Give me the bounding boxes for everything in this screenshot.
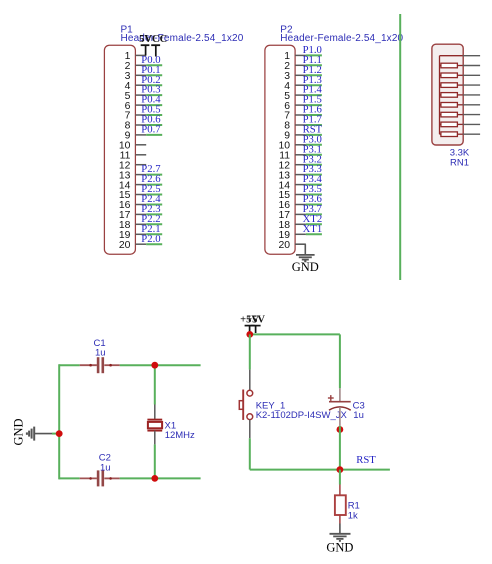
wire and net label P1.7 (P2 pin 8) [303, 114, 323, 126]
connector P2 body [265, 45, 295, 254]
C1 reference label [94, 338, 106, 349]
svg-text:VCC: VCC [144, 34, 167, 45]
junction +5V corner [246, 331, 253, 338]
junction X1 top [151, 362, 158, 369]
C1 value label 1u [95, 347, 106, 358]
junction RST [337, 466, 344, 473]
junction X1 bottom [151, 475, 158, 482]
P2 pin 4 [284, 81, 306, 92]
wire and net label P3.0 (P2 pin 10) [303, 133, 322, 145]
P1 pin 18 [119, 220, 146, 231]
svg-text:RN1: RN1 [450, 157, 469, 168]
P1 pin 14 [119, 180, 146, 191]
P1 pin 1 [125, 51, 147, 62]
wire top horizontal (reset circuit) [250, 333, 340, 335]
wire and net label P3.2 (P2 pin 12) [303, 153, 322, 165]
ground symbol (rotated) left of crystal circuit [11, 418, 52, 445]
connector P1 body [104, 45, 135, 254]
P2 pin 2 [284, 61, 306, 72]
wire and net label P3.1 (P2 pin 11) [303, 143, 322, 155]
C2 value label 1u [100, 463, 111, 474]
P2 pin 1 [284, 51, 306, 62]
wire and net label P1.6 (P2 pin 7) [303, 104, 323, 116]
wire and net label P1.1 (P2 pin 2) [303, 54, 322, 66]
RN1 resistor element 2 [440, 73, 463, 78]
P1 pin 15 [119, 190, 146, 201]
RN1 value label 3.3K [450, 147, 470, 158]
X1 value label 12MHz [165, 430, 195, 441]
X1 reference label [165, 420, 177, 431]
RN1 resistor element 5 [440, 103, 463, 108]
P2 pin 6 [284, 101, 306, 112]
P2 pin 15 [278, 190, 305, 201]
connector P2 value label Header-Female-2.54_1x20 [280, 33, 403, 44]
svg-text:GND: GND [11, 418, 25, 445]
RN1 pin 1 (common) [440, 55, 481, 57]
svg-text:RST: RST [356, 454, 376, 466]
wire and net label P3.6 (P2 pin 16) [303, 193, 323, 205]
wire and net label P2.2 (P1 pin 18) [141, 213, 162, 225]
wire key column upper [249, 334, 251, 369]
P2 pin 10 [278, 141, 305, 152]
RN1 resistor element 3 [440, 83, 463, 88]
C2 reference label [99, 453, 111, 464]
resistor R1 [335, 485, 346, 524]
P2 pin 8 [284, 121, 306, 132]
wire and net label XT2 (P2 pin 18) [303, 213, 323, 225]
P1 pin 2 [125, 61, 147, 72]
wire crystal column lower [154, 444, 156, 478]
P1 pin 3 [125, 71, 147, 82]
P1 pin 19 [119, 230, 146, 241]
P1 pin 13 [119, 170, 146, 181]
svg-text:1u: 1u [353, 410, 364, 421]
svg-text:P0.7: P0.7 [141, 124, 161, 136]
RN1 resistor element 1 [440, 63, 463, 68]
wire and net label P2.3 (P1 pin 17) [141, 203, 162, 215]
junction below C3 [337, 426, 344, 433]
wire and net label P0.2 (P1 pin 4) [141, 74, 162, 86]
RN1 resistor element 6 [440, 112, 463, 117]
capacitor C2 [80, 470, 120, 486]
RN1 pin 8 [463, 123, 480, 125]
wire and net label P0.1 (P1 pin 3) [141, 64, 162, 76]
P2 pin 7 [284, 111, 306, 122]
capacitor C3 (polarized) [328, 388, 351, 426]
wire and net label P0.0 (P1 pin 2) [141, 54, 162, 66]
KEY_1 reference label [256, 400, 286, 411]
power flag +5V (left) [240, 315, 259, 335]
wire and net label P2.1 (P1 pin 19) [141, 223, 162, 235]
wire and net label P1.5 (P2 pin 6) [303, 94, 322, 106]
resistor network RN1 body [432, 44, 463, 145]
P2 pin 11 [279, 151, 306, 162]
P2 pin 5 [284, 91, 306, 102]
svg-text:+5V: +5V [246, 315, 265, 326]
P2 pin 19 [278, 230, 305, 241]
svg-text:20: 20 [119, 240, 131, 251]
RN1 pin 9 [463, 133, 480, 135]
P2 pin 12 [278, 160, 305, 171]
RN1 pin 7 [463, 114, 480, 116]
P2 pin 13 [278, 170, 305, 181]
switch KEY_1 [239, 370, 252, 439]
P1 pin 4 [125, 81, 147, 92]
wire and net label P1.2 (P2 pin 3) [303, 64, 322, 76]
P1 pin 9 [125, 131, 147, 142]
wire and net label P1.3 (P2 pin 4) [303, 74, 322, 86]
P1 pin 20 [119, 240, 146, 251]
RN1 pin 5 [463, 94, 480, 96]
R1 reference label [348, 501, 360, 512]
wire ground to left vertical [52, 433, 59, 435]
wire and net label P2.0 (P1 pin 20) [141, 233, 162, 245]
wire crystal column upper [154, 365, 156, 404]
wire and net label XT1 (P2 pin 19) [303, 223, 323, 235]
wire vertical net right of P2 [399, 14, 401, 280]
svg-text:K2-1102DP-I4SW_JX: K2-1102DP-I4SW_JX [256, 410, 348, 421]
connector P2 reference label P2 [280, 25, 293, 36]
wire and net label P2.6 (P1 pin 14) [141, 173, 162, 185]
RN1 common bus [439, 56, 441, 135]
wire left vertical (crystal circuit) [58, 364, 60, 479]
P1 pin 5 [125, 91, 147, 102]
P1 pin 8 [125, 121, 147, 132]
P2 pin 17 [278, 210, 305, 221]
svg-text:Header-Female-2.54_1x20: Header-Female-2.54_1x20 [280, 33, 403, 44]
wire and net label P2.4 (P1 pin 16) [141, 193, 162, 205]
capacitor C1 [80, 357, 120, 373]
KEY_1 value label K2-1102DP-I4SW_JX [256, 410, 348, 421]
wire C3 column upper [339, 334, 341, 388]
P2 pin 18 [278, 220, 305, 231]
RN1 resistor element 7 [440, 122, 463, 127]
P1 pin 16 [119, 200, 146, 211]
net label RST [356, 454, 376, 466]
svg-text:12MHz: 12MHz [165, 430, 195, 441]
C3 value label 1u [353, 410, 364, 421]
power flag VCC overlapping at P1 pin 1 [144, 34, 167, 56]
RN1 resistor element 4 [440, 93, 463, 98]
connector P1 reference label P1 [121, 25, 134, 36]
wire and net label P3.7 (P2 pin 17) [303, 203, 323, 215]
power flag 5V at P1 pin 1 [139, 34, 152, 55]
wire and net label RST (P2 pin 9) [303, 124, 323, 136]
RN1 pin 6 [463, 104, 480, 106]
P1 pin 11 [120, 151, 147, 162]
RN1 reference label RN1 [450, 157, 469, 168]
wire and net label P3.3 (P2 pin 13) [303, 163, 322, 175]
svg-text:GND: GND [326, 541, 353, 555]
P1 pin 7 [125, 111, 147, 122]
wire and net label P3.4 (P2 pin 14) [303, 173, 323, 185]
wire C3 column lower [339, 426, 341, 470]
R1 value label 1k [348, 511, 358, 522]
junction ground tap [56, 430, 63, 437]
connector P1 value label Header-Female-2.54_1x20 [121, 33, 244, 44]
wire and net label P0.6 (P1 pin 8) [141, 114, 162, 126]
svg-text:1u: 1u [95, 347, 106, 358]
crystal X1 [147, 405, 162, 445]
wire and net label P3.5 (P2 pin 15) [303, 183, 322, 195]
RN1 resistor element 8 [440, 132, 463, 137]
RN1 pin 2 [463, 65, 480, 67]
P2 pin 9 [284, 131, 306, 142]
P2 pin 20 [278, 240, 305, 251]
wire key column lower [249, 438, 251, 469]
svg-text:XT1: XT1 [303, 223, 323, 235]
wire and net label P0.4 (P1 pin 6) [141, 94, 162, 106]
svg-text:1u: 1u [100, 463, 111, 474]
P2 pin 3 [284, 71, 306, 82]
C3 reference label [353, 401, 365, 412]
wire top horizontal (crystal circuit) [59, 364, 200, 366]
wire RST horizontal [250, 469, 390, 471]
P1 pin 17 [119, 210, 146, 221]
wire and net label P1.0 (P2 pin 1) [303, 44, 322, 56]
P1 pin 12 [119, 160, 146, 171]
RN1 pin 3 [463, 74, 480, 76]
P1 pin 10 [119, 141, 146, 152]
RN1 pin 4 [463, 84, 480, 86]
svg-text:20: 20 [278, 240, 290, 251]
P2 pin 16 [278, 200, 305, 211]
wire P2 pin 20 to ground [295, 244, 305, 255]
power flag +5V (right, overlapping) [246, 315, 265, 333]
P2 pin 14 [278, 180, 305, 191]
wire and net label P2.5 (P1 pin 15) [141, 183, 162, 195]
wire and net label P1.4 (P2 pin 5) [303, 84, 323, 96]
svg-text:1k: 1k [348, 511, 358, 522]
P1 pin 6 [125, 101, 147, 112]
wire and net label P0.3 (P1 pin 5) [141, 84, 162, 96]
wire R1 upper [339, 470, 341, 485]
ground symbol at P2 pin 20 [292, 255, 319, 274]
wire and net label P2.7 (P1 pin 13) [141, 163, 162, 175]
wire bottom horizontal (crystal circuit) [59, 477, 200, 479]
wire and net label P0.5 (P1 pin 7) [141, 104, 162, 116]
wire and net label P0.7 (P1 pin 9) [141, 124, 162, 136]
svg-text:GND: GND [292, 260, 319, 274]
svg-text:P2.0: P2.0 [141, 233, 160, 245]
ground symbol below R1 [326, 524, 353, 555]
